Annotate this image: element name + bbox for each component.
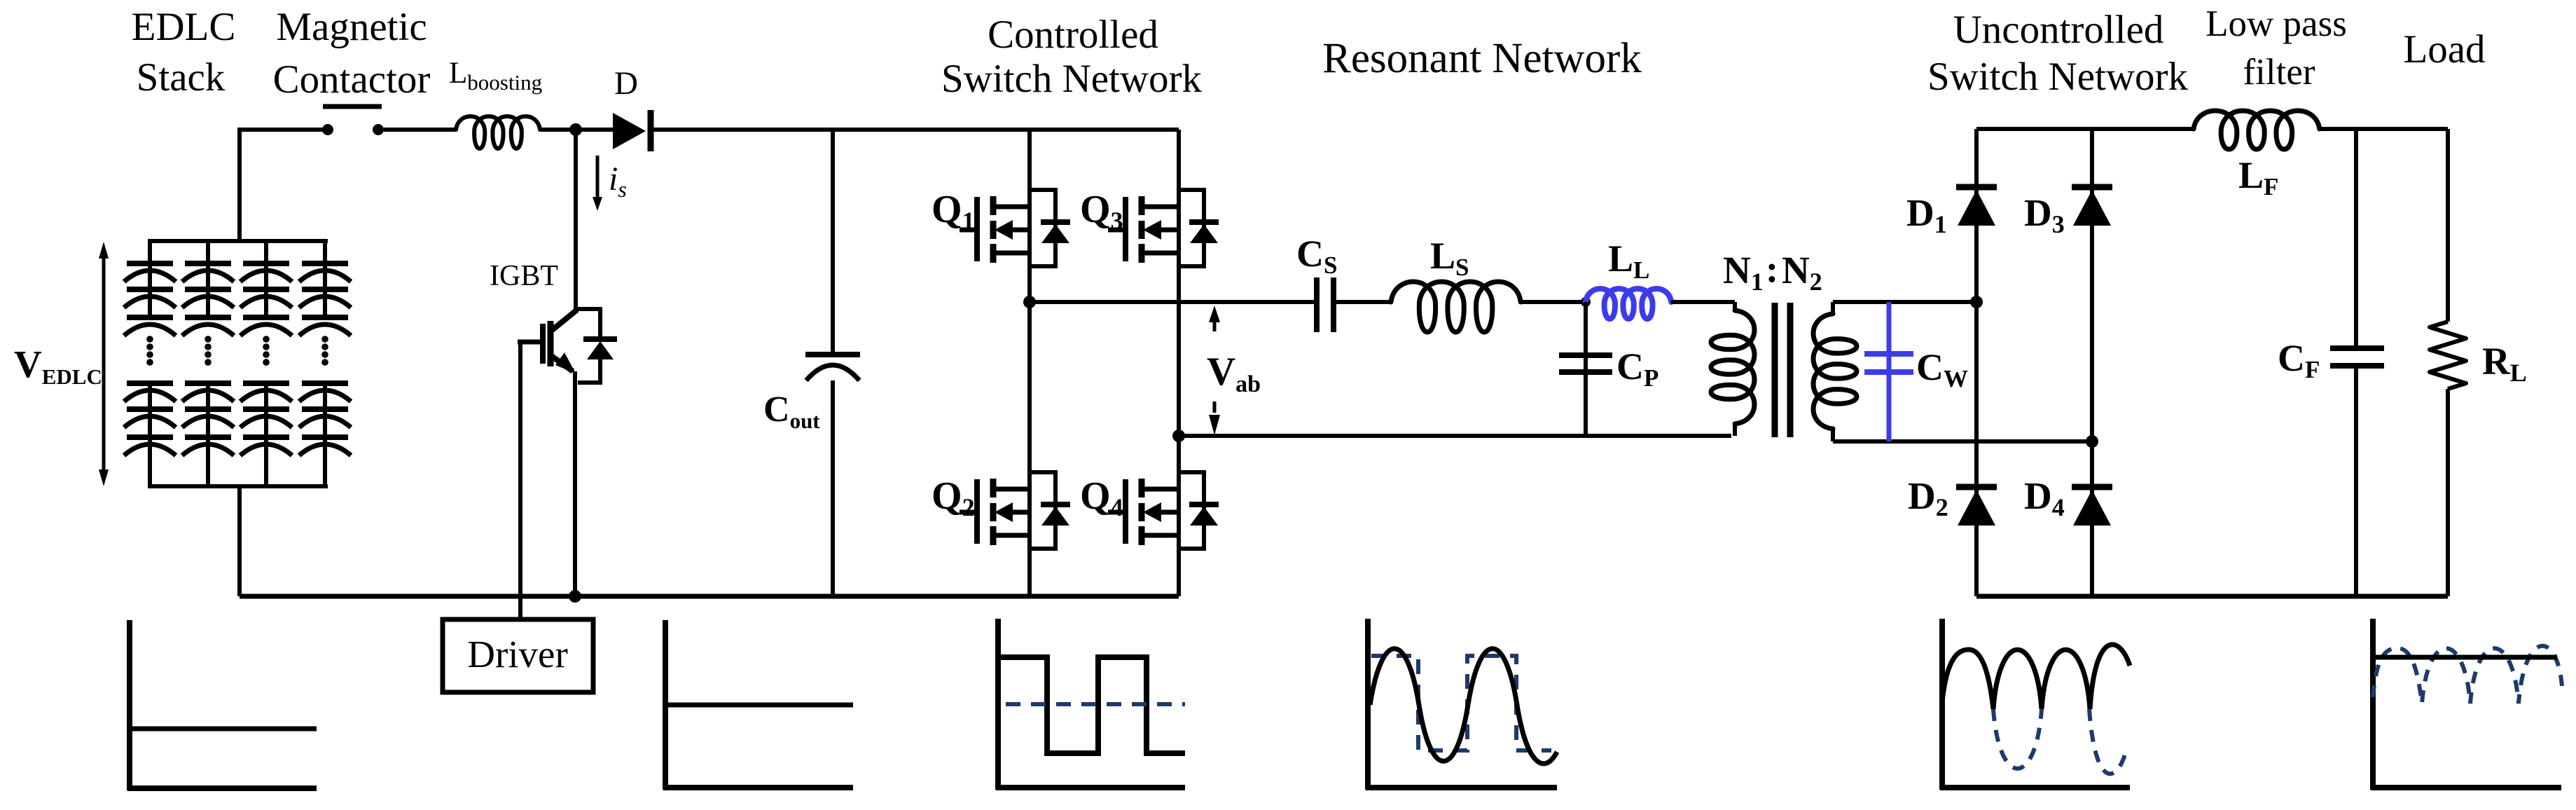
wire node b to resonant bottom <box>1179 434 1731 438</box>
capacitor column 2 of EDLC stack <box>182 241 234 486</box>
label C_S <box>1296 233 1337 279</box>
arrow V_EDLC (double headed) <box>99 242 109 486</box>
label Q3 <box>1080 188 1123 235</box>
svg-text:Load: Load <box>2403 27 2485 71</box>
label V_ab <box>1207 350 1261 397</box>
label i_s <box>609 160 627 202</box>
waveform 5 trace (rectified humps) <box>1942 645 2130 709</box>
transistor Q4 <box>1108 472 1219 549</box>
EDLC stack top bus <box>148 239 328 243</box>
contactor blade (bar) <box>323 104 382 109</box>
wire top rail (right section) <box>1976 127 2194 131</box>
transistor Q2 <box>960 472 1070 549</box>
waveform 6 axes (output voltage) <box>2371 619 2561 790</box>
svg-text:Resonant Network: Resonant Network <box>1322 35 1642 82</box>
wire secondary top <box>1833 300 1976 304</box>
waveform 4 axes (resonant current) <box>1366 619 1557 790</box>
label L_F <box>2238 154 2278 200</box>
label R_L <box>2482 340 2527 387</box>
diode IGBT antiparallel <box>576 309 617 383</box>
diode D4 <box>2072 487 2112 526</box>
waveform 1 axes (EDLC voltage) <box>127 620 317 790</box>
transformer core <box>1775 303 1790 437</box>
label Driver <box>467 633 568 675</box>
node IGBT emitter on bottom rail <box>569 590 581 603</box>
driver box <box>443 619 593 692</box>
node secondary bottom junction <box>2086 435 2098 448</box>
wire bottom rail (left section) <box>240 594 1179 599</box>
transformer secondary winding N2 <box>1813 302 1857 441</box>
wire L_F to R_L corner <box>2320 127 2448 131</box>
arrow V_ab up <box>1209 306 1220 331</box>
label L_boosting <box>449 57 542 95</box>
node s (boost switch node) <box>569 123 582 136</box>
waveform 6 trace (DC line) <box>2373 655 2557 660</box>
diode D <box>613 110 651 151</box>
label C_W <box>1916 346 1968 392</box>
wire R_L branch top <box>2446 129 2450 322</box>
svg-text:filter: filter <box>2243 52 2315 92</box>
capacitor column 1 of EDLC stack <box>124 241 176 486</box>
capacitor C_S <box>1317 277 1334 332</box>
label "EDLC Stack" <box>132 5 236 99</box>
wire bridge right leg <box>1177 130 1181 596</box>
inductor L_L (blue) <box>1586 289 1671 319</box>
arrow V_ab down (dashed) <box>1209 401 1220 435</box>
transistor Q3 <box>1108 190 1219 266</box>
wire secondary bottom <box>1833 439 2092 444</box>
label D1 <box>1906 191 1947 238</box>
label "Resonant Network" <box>1322 35 1642 82</box>
wire L_S to node p <box>1521 300 1586 304</box>
waveform 5 dashed negative lobes <box>1993 709 2125 774</box>
label IGBT <box>490 260 558 292</box>
svg-text:Magnetic: Magnetic <box>276 5 427 49</box>
waveform 3 axes (V_ab) <box>996 619 1185 790</box>
svg-text:Contactor: Contactor <box>273 57 431 102</box>
node contactor left terminal <box>322 124 333 135</box>
arrow i_s <box>593 156 602 211</box>
svg-text:IGBT: IGBT <box>490 260 558 292</box>
transistor Q1 <box>960 190 1070 266</box>
diode D3 <box>2072 187 2112 226</box>
label "Low pass filter" <box>2205 4 2347 92</box>
svg-text:Stack: Stack <box>137 55 226 99</box>
waveform 6 dashed ripple <box>2373 646 2562 703</box>
wire C_W branch (blue) <box>1887 302 1892 441</box>
EDLC stack bottom bus <box>148 484 328 488</box>
label Q2 <box>932 474 975 521</box>
label D2 <box>1908 474 1948 521</box>
svg-text:EDLC: EDLC <box>132 5 236 49</box>
wire rectifier left leg <box>1974 129 1979 596</box>
svg-text:Switch Network: Switch Network <box>1927 55 2189 99</box>
label C_P <box>1616 345 1659 392</box>
resistor R_L <box>2430 322 2466 389</box>
capacitor C_F <box>2330 348 2384 366</box>
waveform 4 trace (sine) <box>1370 649 1557 764</box>
wire rectifier right leg <box>2090 129 2094 596</box>
wire R_L branch bottom <box>2446 389 2450 596</box>
waveform 1 trace (flat DC) <box>130 727 317 732</box>
diode D1 <box>1956 187 1997 226</box>
label "Uncontrolled Switch Network" <box>1927 8 2189 99</box>
wire C_out branch top <box>831 130 835 355</box>
wire collector (node s down to IGBT) <box>574 130 578 310</box>
node secondary top junction <box>1970 296 1983 308</box>
inductor L_S <box>1391 282 1521 332</box>
wire diode D to top rail <box>653 128 1179 132</box>
label "Load" <box>2403 27 2485 71</box>
transistor IGBT <box>518 310 577 373</box>
wire bridge left leg <box>1027 130 1032 596</box>
transformer primary winding N1 <box>1711 302 1754 436</box>
wire C_P branch <box>1584 302 1588 436</box>
wire L_L to transformer primary <box>1671 300 1735 304</box>
wire contactor to L_boosting <box>384 128 456 132</box>
label L_L <box>1608 238 1649 284</box>
waveform 3 trace (square wave) <box>998 657 1185 753</box>
label C_out <box>763 390 820 433</box>
wire IGBT gate to Driver <box>518 342 522 619</box>
svg-text:Controlled: Controlled <box>988 13 1158 57</box>
wire node a to C_S <box>1030 300 1317 304</box>
wire C_S to L_S <box>1336 300 1391 304</box>
diode D2 <box>1956 487 1997 526</box>
wire EDLC positive lead <box>240 130 324 241</box>
node a <box>1023 296 1036 308</box>
label D <box>614 65 638 102</box>
inductor L_boosting <box>456 116 540 149</box>
capacitor C_P <box>1559 355 1612 372</box>
label C_F <box>2278 337 2320 383</box>
label Q4 <box>1080 474 1123 521</box>
waveform 3 zero line (dashed) <box>1006 702 1185 706</box>
inductor L_F <box>2194 111 2320 149</box>
wire bottom rail (right section) <box>1976 594 2448 599</box>
label D3 <box>2024 191 2065 238</box>
wire EDLC negative lead <box>237 486 242 596</box>
wire IGBT emitter to bottom rail <box>573 371 577 596</box>
wire C_F branch bottom <box>2354 366 2358 596</box>
svg-text:D: D <box>614 65 638 102</box>
waveform 5 axes (rectified) <box>1940 619 2130 790</box>
label "Controlled Switch Network" <box>941 13 1203 101</box>
svg-text:Driver: Driver <box>467 633 568 675</box>
label Q1 <box>932 188 975 235</box>
label L_S <box>1430 235 1469 281</box>
waveform 2 trace (flat DC) <box>665 703 853 708</box>
capacitor C_out <box>805 355 860 380</box>
svg-text:Uncontrolled: Uncontrolled <box>1953 8 2164 52</box>
node contactor right terminal <box>373 124 384 135</box>
wire C_F branch top <box>2354 129 2358 348</box>
svg-text:Low pass: Low pass <box>2205 4 2347 44</box>
node p (C_P junction) <box>1581 297 1591 307</box>
label N1 : N2 <box>1723 247 1822 296</box>
waveform 2 axes (boosted voltage) <box>663 620 853 790</box>
capacitor column 3 of EDLC stack <box>240 241 292 486</box>
label V_EDLC <box>14 343 102 389</box>
capacitor column 4 of EDLC stack <box>299 241 351 486</box>
capacitor C_W (blue) <box>1864 354 1913 372</box>
wire C_out branch bottom <box>831 380 835 596</box>
label "Magnetic Contactor" <box>273 5 431 102</box>
svg-text::: : <box>1766 247 1778 290</box>
svg-text:Switch Network: Switch Network <box>941 57 1203 101</box>
waveform 4 dashed square overlay <box>1371 656 1551 750</box>
wire L_boosting to node s <box>540 128 576 132</box>
node b <box>1172 430 1185 442</box>
wire node s to diode D <box>576 128 613 132</box>
label D4 <box>2024 474 2065 521</box>
